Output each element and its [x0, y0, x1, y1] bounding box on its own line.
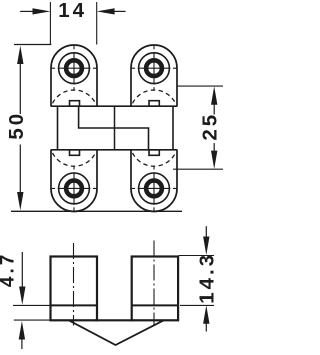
junction line upper — [51, 105, 177, 107]
dim 4.7 line upper — [21, 252, 23, 288]
base line across gap — [95, 319, 133, 321]
door edge V mark — [69, 320, 164, 345]
dim 14.3 extension line upper — [179, 255, 215, 257]
junction line lower — [51, 149, 177, 151]
dim 25 extension line top — [177, 85, 223, 87]
dim 4.7 arrow down — [19, 287, 25, 305]
crosshair bottom-left — [52, 166, 97, 211]
notch top-left — [70, 101, 80, 107]
dim 14 arrow right — [114, 10, 126, 12]
lobe bottom-right outline — [131, 150, 177, 212]
dim 50 arrow down — [17, 192, 23, 210]
centreline right block — [153, 241, 155, 326]
mortise dashed arc top-right — [133, 90, 176, 103]
dim 50 arrow up — [17, 46, 23, 64]
crosshair top-right — [132, 46, 177, 91]
strip line left — [51, 304, 98, 306]
svg-text:4.7: 4.7 — [0, 252, 19, 287]
svg-text:50: 50 — [5, 111, 28, 140]
mortise dashed arc bottom-left — [53, 153, 96, 166]
dim 25 extension line bottom — [173, 168, 223, 170]
block right — [132, 257, 178, 321]
dim 14 extension line right — [96, 2, 98, 45]
body left edge — [57, 106, 59, 150]
dim 4.7 extension line upper — [13, 304, 51, 306]
dim 14.3 arrow down — [203, 237, 209, 256]
dim 25 arrow down — [211, 151, 217, 169]
dim 50 line — [19, 64, 21, 193]
strip line right — [132, 304, 178, 306]
lobe bottom-left outline — [51, 150, 97, 212]
lobe top-left outline — [51, 45, 97, 107]
countersink circle top-left — [59, 53, 90, 84]
body right edge — [172, 106, 174, 150]
pivot centre joint — [114, 106, 116, 150]
block left — [51, 257, 98, 321]
dim 14.3 arrow up — [203, 305, 209, 324]
screw hole ring bottom-right — [146, 181, 162, 197]
mortise dashed arc bottom-right — [133, 153, 176, 166]
notch top-right — [149, 101, 159, 107]
dim 4.7 arrow up — [19, 321, 25, 340]
svg-text:14.3: 14.3 — [196, 252, 219, 304]
svg-text:25: 25 — [198, 112, 221, 141]
crosshair top-left — [52, 46, 97, 91]
countersink circle top-right — [139, 53, 170, 84]
top tangent extension line — [14, 44, 51, 46]
countersink circle bottom-right — [139, 173, 170, 204]
dim 14 arrow left — [20, 10, 33, 12]
screw hole ring bottom-left — [66, 181, 82, 197]
dim 25 arrow up — [211, 86, 217, 104]
dim 14.3 line upper — [205, 226, 207, 237]
dim 25 line — [213, 104, 215, 152]
screw hole ring top-left — [66, 60, 82, 76]
screw hole ring top-right — [146, 60, 162, 76]
lobe top-right outline — [131, 45, 177, 107]
notch bottom-right — [149, 150, 159, 156]
dim 4.7 extension line lower — [14, 319, 51, 321]
dim 4.7 line lower — [21, 339, 23, 349]
mortise dashed arc top-left — [53, 90, 96, 103]
dim 14.3 extension line lower — [180, 304, 214, 306]
base tangent extension line — [11, 210, 182, 212]
dim 14 extension line left — [49, 2, 51, 45]
svg-text:14: 14 — [58, 0, 87, 22]
notch bottom-left — [70, 150, 80, 156]
centreline left block — [73, 243, 75, 326]
countersink circle bottom-left — [59, 173, 90, 204]
crosshair bottom-right — [132, 166, 177, 211]
dim 14.3 line lower — [205, 323, 207, 331]
link Z-bar — [79, 106, 149, 150]
